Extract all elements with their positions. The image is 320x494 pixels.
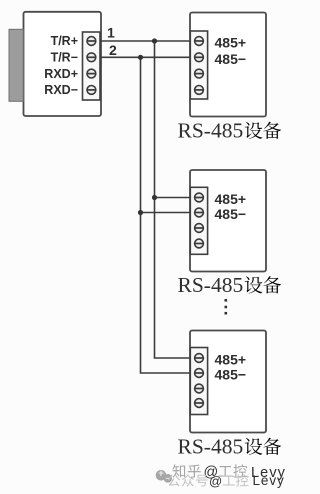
svg-text:485−: 485−: [215, 51, 247, 67]
RS-485 device 3 box: [190, 331, 266, 433]
svg-text:485+: 485+: [215, 35, 247, 51]
svg-text:T/R+: T/R+: [51, 34, 78, 48]
svg-text:1: 1: [107, 25, 115, 41]
branch wire to device 2 terminal 485-: [141, 212, 191, 214]
bus wire A (485+) vertical drop and branch to device 3: [155, 41, 191, 358]
svg-text:@: @: [209, 474, 222, 489]
wire 2 : T/R- to 485- bus: [100, 56, 191, 58]
svg-text:RS-485: RS-485: [178, 273, 244, 297]
svg-text:RS-485: RS-485: [178, 435, 244, 459]
svg-text:485+: 485+: [215, 352, 247, 368]
svg-text:485+: 485+: [215, 191, 247, 207]
junction dot wire1/busA: [152, 38, 157, 43]
svg-text:T/R−: T/R−: [51, 51, 78, 65]
junction dot busA/device2: [152, 195, 157, 200]
RS-485 device 2 box: [190, 170, 266, 272]
svg-text:Levy: Levy: [253, 473, 285, 488]
svg-text:2: 2: [109, 42, 117, 58]
svg-text:RXD+: RXD+: [44, 67, 78, 81]
svg-text:485−: 485−: [215, 367, 247, 383]
svg-text:RS-485: RS-485: [178, 119, 244, 143]
junction dot wire2/busB: [138, 55, 143, 60]
watermark line A: zhihu @gongkong Levy: [172, 464, 286, 481]
watermark icon (zhihu bubbles): [156, 470, 172, 483]
bus wire B (485-) vertical drop and branch to device 3: [141, 57, 191, 373]
terminal block of device 2: [190, 187, 207, 254]
RS-485 device 1 box: [190, 13, 266, 117]
DB connector (grey) on left of converter: [9, 29, 23, 101]
converter device box (left): [24, 12, 102, 116]
caption RS-485 device 2: [178, 273, 282, 297]
terminal block of device 3: [190, 348, 207, 415]
svg-text:485−: 485−: [215, 206, 247, 222]
terminal block of converter: [83, 32, 101, 100]
wire 1 : T/R+ to 485+ bus: [100, 40, 191, 42]
caption RS-485 device 3: [178, 435, 282, 459]
watermark line B: gongzhonghao @gongkong Levy: [168, 473, 285, 489]
terminal block of device 1: [190, 31, 207, 99]
svg-text:RXD−: RXD−: [44, 83, 78, 97]
caption RS-485 device 1: [178, 119, 282, 143]
branch wire to device 2 terminal 485+: [155, 197, 191, 199]
junction dot busB/device2: [138, 210, 143, 215]
ellipsis (more devices): [225, 299, 228, 315]
